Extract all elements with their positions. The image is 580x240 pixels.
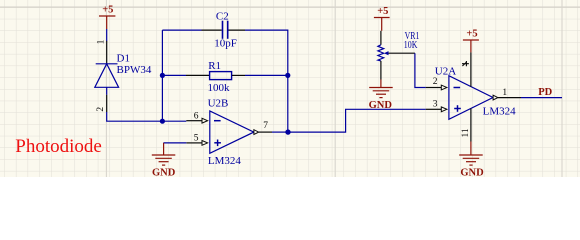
ground (below VR1) [369,80,393,98]
ground (below U2B pin5) [152,143,176,165]
svg-text:10K: 10K [404,39,418,51]
svg-text:PD: PD [538,87,552,98]
pin 2 of U2A [426,87,442,89]
svg-text:3: 3 [433,99,438,109]
svg-text:+5: +5 [377,6,388,17]
svg-text:2: 2 [96,107,106,112]
pin 1 of D1 [106,41,108,64]
wire (U2B out to U2A pin3) [288,109,426,132]
svg-text:1: 1 [502,88,507,98]
svg-text:+5: +5 [102,5,113,16]
pin 5 of U2B [186,142,202,144]
pin 4 of U2A [470,52,472,86]
wire (R1 right to feedback vertical) [245,74,288,76]
op-amp U2A [449,76,493,120]
power +5 (left, above D1) [99,16,115,29]
svg-text:Photodiode: Photodiode [15,136,102,157]
svg-text:+5: +5 [466,29,477,40]
svg-text:6: 6 [194,112,199,122]
pin 1 of VR1 [380,31,382,45]
svg-text:BPW34: BPW34 [117,64,152,76]
node: output junction [285,129,290,134]
svg-text:GND: GND [152,168,176,178]
pin 6 of U2B [186,120,202,122]
wire (pin5 to GND) [163,142,186,144]
node: R1 right junction [285,73,290,78]
wire (PD net) [521,97,562,99]
wire (C2 right to feedback right vertical) [245,30,288,132]
darker grid lines [0,6,580,8]
svg-text:5: 5 [194,133,199,143]
pin 2 of VR1 [380,61,382,80]
svg-text:GND: GND [369,100,393,111]
svg-text:7: 7 [263,121,268,131]
wire (+5 to D1) [106,29,108,41]
power +5 (above VR1) [374,18,390,31]
wire (feedback left vertical) [161,30,163,121]
svg-text:1: 1 [96,39,106,44]
node: R1 left junction [160,73,165,78]
svg-text:D1: D1 [117,53,130,65]
svg-text:LM324: LM324 [208,155,242,167]
svg-text:GND: GND [460,167,484,177]
wire (U2B output) [272,131,288,133]
svg-text:100k: 100k [208,82,231,94]
resistor R1 [186,74,210,76]
capacitor C2 [202,29,222,31]
svg-text:U2B: U2B [208,98,229,110]
pin 2 of D1 [106,87,108,95]
svg-text:C2: C2 [216,10,229,22]
svg-text:11: 11 [461,128,471,137]
svg-text:U2A: U2A [435,66,456,78]
svg-text:R1: R1 [208,60,221,72]
wire (to C2 left) [162,29,201,31]
power +5 (above U2A) [463,40,479,52]
wire (D1 to input node) [107,112,187,121]
op-amp U2B [210,111,254,153]
potentiometer VR1 [378,45,384,61]
wire (wiper to U2A pin2) [415,53,426,87]
svg-text:2: 2 [433,77,438,87]
node: input junction [160,119,165,124]
pin 3 of U2A [426,108,442,110]
photodiode D1 [95,64,119,88]
pin 7 of U2B [254,130,259,135]
pin 1 of U2A [493,95,498,100]
svg-text:LM324: LM324 [483,106,516,118]
wire (node to R1 left) [162,74,186,76]
wiper of VR1 [384,51,389,55]
ground (below U2A) [459,142,483,166]
pin 11 of U2A [470,108,472,141]
svg-text:10pF: 10pF [214,37,237,49]
